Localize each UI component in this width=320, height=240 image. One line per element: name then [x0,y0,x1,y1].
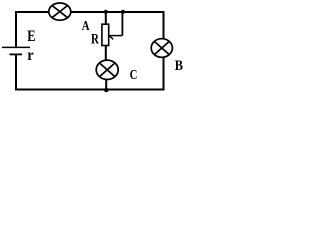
svg-text:r: r [27,46,34,64]
svg-text:C: C [130,67,138,82]
svg-text:R: R [91,31,100,47]
svg-text:B: B [175,57,183,73]
svg-text:A: A [82,18,90,33]
svg-text:E: E [27,28,35,46]
